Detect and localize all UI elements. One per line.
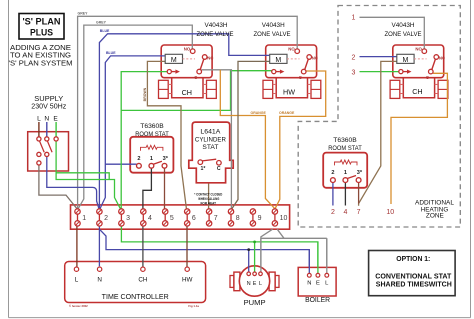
svg-text:ZONE VALVE: ZONE VALVE [385,31,423,38]
svg-text:PLUS: PLUS [30,27,53,38]
svg-text:ORANGE: ORANGE [279,111,295,115]
wire green: CH valve earth down to terminal3 [121,72,167,209]
svg-text:GREY: GREY [96,20,107,24]
additional zone valve actuator internals [397,46,445,80]
svg-text:V4043H: V4043H [262,22,285,29]
pump feed wires entering [248,250,250,273]
wire blue branch to room stat terminal 2 [105,163,136,165]
svg-text:GREY: GREY [78,12,89,16]
terminal 3 [119,209,130,226]
svg-text:NO: NO [184,46,191,51]
svg-text:C: C [299,75,302,80]
terminal 6 [185,209,196,226]
wire blue: supply N to terminal2 [47,156,99,208]
room stat (additional) internals [331,160,363,183]
svg-text:L: L [75,277,79,284]
svg-text:NC: NC [312,55,318,60]
terminal 10 [272,209,287,226]
svg-text:E: E [253,281,257,287]
HW valve actuator internals [270,46,318,80]
pump terminals N E L [244,272,266,307]
svg-text:'S' PLAN: 'S' PLAN [23,16,61,27]
wire grey: terminal4 to time controller CH [142,226,144,267]
svg-text:© hestec 2002: © hestec 2002 [69,304,88,308]
svg-text:NC: NC [207,55,213,60]
zone valve CH body/pipe unions [159,78,217,99]
wire brown: HW valve motor to terminal8 [232,61,270,208]
wire orange: HW valve switched live to terminal10 [275,71,326,209]
svg-text:'S' PLAN SYSTEM: 'S' PLAN SYSTEM [9,58,73,67]
wire green: terminal3 to pump E / boiler E [121,226,318,273]
boiler terminals N E L [305,273,330,303]
svg-text:BOILER: BOILER [305,297,330,304]
svg-text:1: 1 [150,156,153,162]
pump [230,266,279,296]
junction dot green (pump E tee) [253,241,256,244]
svg-text:E: E [53,115,58,122]
svg-text:3*: 3* [163,156,169,162]
svg-text:ZONE VALVE: ZONE VALVE [197,31,235,38]
svg-text:OPTION 1:: OPTION 1: [396,256,430,263]
terminal 9 [250,209,261,226]
time controller terminals [69,267,199,308]
svg-text:10: 10 [386,209,394,216]
wire brown: CH valve motor to terminal6 [147,61,186,208]
additional zone: wire orange valve to label 10 [391,73,447,204]
wire black: room stat 1 to terminal4 [143,168,152,209]
supply label [31,94,66,122]
svg-text:V4043H: V4043H [392,22,415,29]
svg-text:2: 2 [331,170,334,176]
wire brown: terminal6 to time controller HW [186,226,188,267]
svg-text:PUMP: PUMP [244,298,266,307]
additional zone: wire blue from label 2 to valve motor [360,56,397,58]
cylinder stat L641A outline [189,122,233,183]
svg-text:CH: CH [412,87,422,96]
svg-text:L: L [259,281,262,287]
svg-text:N: N [307,281,311,287]
svg-text:M: M [402,57,408,64]
svg-text:N: N [44,115,49,122]
time controller box [65,262,206,303]
CH valve actuator internals (M, NO, NC, C, earth) [165,46,213,80]
room stat T6360B (main) box [130,137,173,173]
svg-text:ZONE: ZONE [426,213,444,220]
wire grey-brown: supply L to terminal1 [39,165,77,209]
svg-text:HW: HW [182,277,193,284]
svg-text:3*: 3* [357,170,363,176]
room stat T6360B (additional zone) box [323,153,367,188]
boiler box [298,267,336,296]
svg-text:NC: NC [439,55,445,60]
svg-text:ZONE VALVE: ZONE VALVE [254,31,292,38]
valve name labels [197,22,423,38]
svg-text:2: 2 [331,209,335,216]
additional zone: wire brown valve motor to label 7 [359,61,397,205]
terminal 8 [228,209,239,226]
dashed boundary: additional heating zone [298,6,460,228]
svg-text:T6360B: T6360B [140,123,164,130]
terminal 2 [97,209,108,226]
title box 'S' PLAN PLUS [19,14,64,40]
terminal 4 [141,209,152,226]
wire brown: cylinder stat to terminal7 [208,184,210,209]
svg-text:STAT: STAT [202,144,218,151]
svg-text:BLUE: BLUE [100,29,110,33]
svg-text:2: 2 [137,156,140,162]
additional zone: wire green from label 3 to valve earth [360,71,399,73]
svg-text:C: C [217,166,221,172]
svg-text:E: E [316,281,320,287]
svg-text:CYLINDER: CYLINDER [195,136,226,143]
svg-text:CH: CH [138,277,148,284]
zone valve CH head (V4043H) [161,45,212,78]
svg-text:2: 2 [352,54,356,61]
svg-text:HW: HW [283,88,295,97]
svg-text:NO: NO [415,46,422,51]
wire brown: terminal1 to time controller L [76,226,78,267]
svg-text:4: 4 [343,209,347,216]
svg-text:5: 5 [170,215,174,222]
svg-text:10: 10 [280,215,288,222]
svg-text:C: C [426,75,429,80]
zone valve CH head (V4043H) [393,45,444,78]
svg-text:CH: CH [182,88,192,97]
supply incoming leads L N E [38,122,40,137]
svg-text:N: N [97,277,102,284]
wire grey#1: terminal1 to HW valve NO [78,16,298,208]
svg-text:6: 6 [192,215,196,222]
svg-text:ORANGE: ORANGE [251,111,267,115]
svg-text:M: M [275,57,281,64]
terminal 7 [206,209,217,226]
junction dot blue (pump N tee) [247,248,250,251]
svg-text:T6360B: T6360B [333,137,357,144]
additional zone: stat wires to labels 2 4 7 [332,182,334,205]
svg-text:SHARED TIMESWITCH: SHARED TIMESWITCH [376,281,452,288]
terminal strip junction box [71,205,290,229]
svg-text:Fig 1-1a: Fig 1-1a [188,304,199,308]
wire grey#2: terminal1 to CH valve NO [78,25,192,209]
wire blue A: terminal2 up, over to HW valve motor [99,34,269,209]
svg-text:7: 7 [214,215,218,222]
wire green: supply earth upper loop [56,173,109,180]
svg-text:4: 4 [148,215,152,222]
svg-text:7: 7 [357,209,361,216]
svg-text:TIME CONTROLLER: TIME CONTROLLER [102,294,169,301]
svg-text:V4043H: V4043H [205,22,228,29]
zone valve HW head (V4043H) [266,45,317,78]
wire orange: CH valve switched live to terminal10 [220,70,274,209]
svg-text:1: 1 [352,14,356,21]
svg-text:ROOM STAT: ROOM STAT [135,131,169,138]
svg-text:230V 50Hz: 230V 50Hz [31,102,66,111]
subtitle text [9,43,73,67]
wire grey: CH valve C to terminal8 [202,70,232,209]
wire brown: room stat 3* to terminal5 [164,168,166,209]
supply isolator switch box [28,132,69,171]
wire green: across to HW valve earth [121,71,272,111]
additional zone: wire grey from label 1 to valve NO [360,17,425,49]
svg-text:BROWN: BROWN [143,87,147,101]
svg-text:L: L [37,115,41,122]
svg-text:NO: NO [288,46,295,51]
svg-text:8: 8 [236,215,240,222]
terminal 5 [163,209,174,226]
wire green: supply earth to terminal3 (lower run) [56,141,120,209]
svg-text:C: C [194,75,197,80]
svg-text:BLUE: BLUE [106,51,116,55]
stat name labels [135,123,362,152]
zone valve CH body/pipe unions [390,78,448,99]
supply switch contacts [37,137,58,165]
svg-text:3: 3 [126,215,130,222]
room stat T6360B (main) internals [137,145,169,168]
svg-text:1: 1 [344,170,347,176]
zone valve HW body/pipe unions [263,78,321,99]
wire blue: terminal2 to time controller N / pump N / boiler N [98,226,100,266]
svg-text:9: 9 [258,215,262,222]
svg-text:L641A: L641A [200,129,220,136]
svg-text:ROOM STAT: ROOM STAT [328,145,362,152]
option 1 note box [369,251,456,296]
cylinder stat terminals [198,159,221,172]
svg-text:FOR HEAT: FOR HEAT [201,201,217,206]
svg-text:N: N [247,281,251,287]
svg-text:1: 1 [82,215,86,222]
cylinder stat note [194,191,222,205]
terminal 1 [75,209,86,226]
svg-text:CONVENTIONAL STAT: CONVENTIONAL STAT [375,274,452,281]
additional zone red terminal numbers [331,14,394,216]
wire grey: terminal10 to pump L and boiler L [261,229,273,271]
wire blue B: terminal2 to CH valve motor and room stat 2 [100,56,165,209]
boiler feed wires entering [308,250,310,274]
svg-text:M: M [171,57,177,64]
wire colour labels [78,12,296,115]
svg-text:2: 2 [104,215,108,222]
additional heating zone label [415,200,454,220]
svg-text:3: 3 [352,69,356,76]
